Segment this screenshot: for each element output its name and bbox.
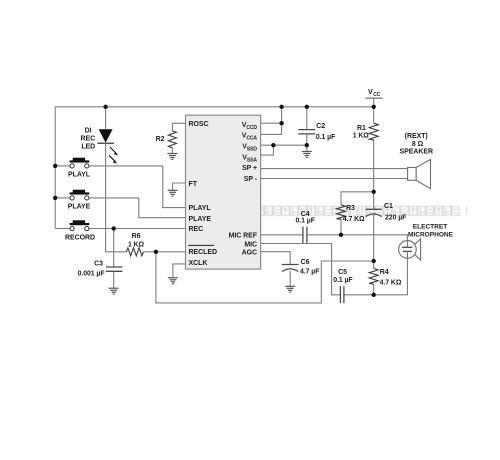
- wire top VCC rail: [55, 106, 374, 108]
- svg-text:MIC: MIC: [244, 242, 257, 249]
- svg-text:REC: REC: [189, 226, 204, 233]
- wire VSSD to C2 bottom junction: [261, 144, 307, 146]
- capacitor C2: [298, 123, 335, 141]
- wire ROSC to R2: [172, 123, 185, 131]
- wire SP+ to speaker: [261, 168, 408, 170]
- wire node A left to R3 top: [341, 192, 374, 205]
- svg-text:0.1 µF: 0.1 µF: [316, 134, 335, 141]
- svg-text:(REXT): (REXT): [405, 133, 428, 140]
- wire C5 right to node C to mic bottom: [344, 258, 408, 295]
- wire VCCD to junction column: [261, 107, 282, 123]
- svg-text:R4: R4: [380, 269, 389, 276]
- wire C1 bottom to node B: [373, 214, 375, 262]
- wire LED cathode down to R6: [105, 143, 107, 252]
- resistor R3: [337, 205, 366, 223]
- svg-text:MICROPHONE: MICROPHONE: [408, 231, 454, 238]
- svg-text:C5: C5: [338, 269, 347, 276]
- capacitor C5: [333, 269, 352, 303]
- svg-text:4.7 µF: 4.7 µF: [300, 268, 319, 275]
- IC U1 chip body: [186, 115, 261, 269]
- wire R6 right lead to RECLED dot: [144, 251, 156, 253]
- svg-text:0.1 µF: 0.1 µF: [333, 277, 352, 284]
- wire AGC to C6: [261, 252, 291, 265]
- wire C4 to R3 dot to mic top: [307, 235, 408, 241]
- resistor R2: [156, 131, 177, 148]
- svg-text:FT: FT: [189, 181, 198, 188]
- resistor R1: [353, 123, 378, 140]
- node rail/PLAYE: [53, 196, 57, 200]
- wire R3 bottom to MIC REF line: [340, 219, 342, 234]
- wire C6 bottom to ground: [289, 271, 291, 286]
- svg-text:C6: C6: [301, 259, 310, 266]
- svg-text:C1: C1: [384, 203, 393, 210]
- svg-text:SP +: SP +: [242, 165, 257, 172]
- svg-text:PLAYL: PLAYL: [189, 205, 212, 212]
- node B C1/R4: [372, 259, 376, 263]
- wire MIC pin to down column: [261, 244, 341, 295]
- speaker SP1: [408, 159, 431, 188]
- capacitor C4: [296, 211, 315, 243]
- pushbutton RECORD: [65, 220, 95, 241]
- wire R2 bottom to ground: [171, 148, 173, 154]
- svg-text:R3: R3: [346, 205, 355, 212]
- wire PLAYE row: rail to button: [55, 197, 70, 199]
- resistor R4: [369, 269, 402, 287]
- resistor R6: [127, 233, 145, 256]
- node REC/C3: [112, 226, 116, 230]
- wire RECORD button to chip REC: [89, 228, 186, 230]
- svg-text:ELECTRET: ELECTRET: [413, 223, 447, 230]
- svg-text:MIC REF: MIC REF: [229, 232, 258, 239]
- LED D1: [81, 128, 119, 164]
- node VCCD/VCCA: [279, 121, 283, 125]
- ground below C3: [109, 288, 119, 294]
- capacitor C1 (electrolytic): [366, 203, 407, 221]
- svg-text:4.7 KΩ: 4.7 KΩ: [380, 279, 402, 286]
- wire VSSA up to VSS junction: [261, 145, 274, 155]
- node VSSD/VSSA: [271, 143, 275, 147]
- svg-text:PLAYE: PLAYE: [68, 204, 91, 211]
- svg-text:XCLK: XCLK: [189, 260, 208, 267]
- wire C3 bottom to ground: [113, 271, 115, 288]
- node C2 column/rail: [305, 105, 309, 109]
- wire node B down R4 top lead: [373, 261, 375, 269]
- wire PLAYE button to chip: [89, 198, 186, 218]
- svg-text:220 µF: 220 µF: [385, 214, 406, 221]
- pushbutton PLAYE: [68, 190, 91, 211]
- node A R1/R3/C1: [372, 190, 376, 194]
- svg-text:8 Ω: 8 Ω: [412, 141, 424, 148]
- ground below FT: [168, 190, 178, 196]
- wire PLAYL button to chip: [89, 166, 186, 208]
- svg-text:CC: CC: [373, 92, 381, 98]
- VCC symbol: [366, 89, 383, 98]
- wire C2 column from rail: [306, 107, 308, 130]
- svg-text:1 KΩ: 1 KΩ: [353, 132, 370, 139]
- svg-text:REC: REC: [81, 136, 96, 143]
- wire R6 left lead: [106, 251, 127, 253]
- node rail/PLAYL: [53, 164, 57, 168]
- wire RECLED dot down and long bottom run to node B column: [156, 252, 374, 303]
- wire SP- to speaker: [261, 178, 408, 180]
- wire RECORD row: rail to button: [55, 228, 70, 230]
- node VSS/C2: [305, 143, 309, 147]
- wire VCC column down through R1 top: [373, 98, 375, 123]
- wire FT to ground: [173, 183, 186, 190]
- wire XCLK to ground: [173, 264, 186, 278]
- svg-text:R1: R1: [357, 125, 366, 132]
- ground below C6: [285, 286, 295, 292]
- svg-text:RECLED: RECLED: [189, 249, 217, 256]
- wire RECLED dot to chip: [156, 251, 186, 253]
- svg-text:RECORD: RECORD: [65, 235, 95, 242]
- ground below XCLK: [168, 278, 178, 284]
- wire PLAYL row: rail to button: [55, 165, 70, 167]
- wire VCCA up to VCC junction: [261, 123, 282, 134]
- svg-text:4.7 KΩ: 4.7 KΩ: [343, 216, 365, 223]
- node R3/MIC REF: [339, 233, 343, 237]
- node C R4/C5/mic: [372, 293, 376, 297]
- svg-text:PLAYE: PLAYE: [189, 216, 212, 223]
- svg-text:0.1 µF: 0.1 µF: [296, 217, 315, 224]
- capacitor C3: [78, 260, 123, 277]
- svg-text:DI: DI: [85, 128, 92, 135]
- ground below R2: [167, 154, 177, 160]
- wire left button rail: [54, 107, 56, 229]
- svg-text:SPEAKER: SPEAKER: [400, 148, 434, 155]
- wire R1 bottom to node A: [373, 140, 375, 192]
- node VCC/R1: [372, 105, 376, 109]
- wire C2 bottom to ground: [306, 134, 308, 152]
- svg-text:R6: R6: [132, 233, 141, 240]
- svg-text:0.001 µF: 0.001 µF: [78, 271, 105, 278]
- svg-text:R2: R2: [156, 136, 165, 143]
- svg-text:C3: C3: [94, 260, 103, 267]
- electret microphone MK1: [399, 239, 421, 260]
- wire LED column top: [105, 107, 107, 130]
- svg-text:C2: C2: [316, 123, 325, 130]
- svg-text:ROSC: ROSC: [189, 121, 209, 128]
- svg-text:1 KΩ: 1 KΩ: [128, 242, 145, 249]
- node RECLED/R6: [154, 250, 158, 254]
- svg-text:AGC: AGC: [242, 249, 257, 256]
- svg-text:PLAYL: PLAYL: [68, 172, 91, 179]
- svg-text:LED: LED: [81, 143, 95, 150]
- wire node A down to C1 top: [373, 192, 375, 210]
- capacitor C6 (polarized): [282, 259, 320, 276]
- ground below C2: [302, 152, 312, 158]
- wire REC junction down to C3: [113, 229, 115, 268]
- watermark: [257, 206, 467, 215]
- pushbutton PLAYL: [68, 158, 91, 179]
- node LED/rail: [103, 105, 107, 109]
- wire MIC REF line chip to C4: [261, 234, 303, 236]
- node VCCD column/rail: [279, 105, 283, 109]
- svg-text:SP -: SP -: [244, 176, 258, 183]
- wire R4 bottom to node C: [373, 284, 375, 295]
